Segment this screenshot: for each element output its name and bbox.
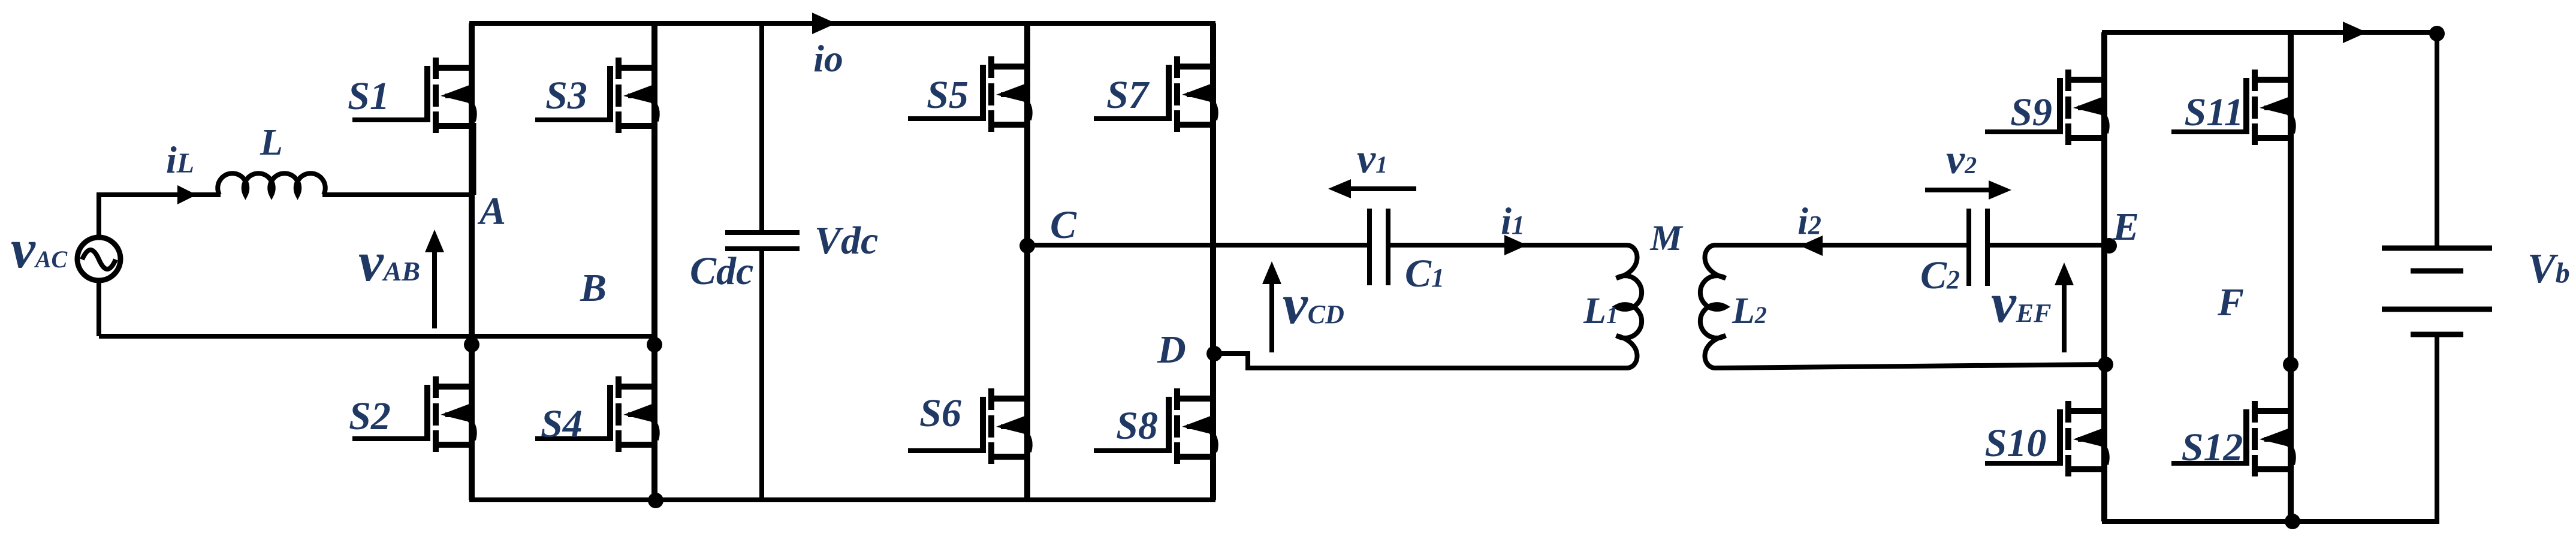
svg-text:v1: v1 [1357, 136, 1387, 182]
svg-text:S8: S8 [1116, 404, 1158, 448]
svg-text:Vb: Vb [2527, 246, 2570, 292]
svg-text:C1: C1 [1405, 252, 1444, 295]
svg-text:A: A [477, 189, 506, 233]
svg-text:S7: S7 [1106, 73, 1150, 117]
svg-text:S11: S11 [2184, 90, 2243, 134]
svg-text:vEF: vEF [1991, 272, 2051, 334]
svg-text:S12: S12 [2182, 426, 2243, 469]
svg-text:S1: S1 [348, 74, 390, 118]
svg-text:D: D [1157, 328, 1186, 372]
svg-text:v2: v2 [1946, 137, 1977, 183]
svg-text:Vdc: Vdc [815, 219, 878, 263]
svg-text:S2: S2 [349, 394, 391, 438]
svg-text:M: M [1649, 218, 1684, 258]
svg-text:S5: S5 [927, 73, 969, 117]
svg-text:S3: S3 [545, 74, 587, 117]
svg-text:S9: S9 [2010, 90, 2052, 134]
svg-text:L2: L2 [1732, 291, 1767, 331]
svg-text:vCD: vCD [1283, 273, 1344, 336]
svg-text:Cdc: Cdc [690, 249, 753, 293]
svg-text:vAB: vAB [358, 231, 420, 293]
svg-text:iL: iL [166, 138, 194, 181]
svg-text:i1: i1 [1501, 200, 1525, 242]
svg-text:B: B [580, 266, 607, 310]
svg-text:F: F [2217, 280, 2244, 324]
svg-text:S6: S6 [919, 391, 961, 435]
svg-text:L: L [260, 122, 283, 163]
svg-text:i2: i2 [1797, 200, 1821, 242]
svg-text:C: C [1050, 203, 1077, 247]
svg-text:io: io [813, 37, 843, 80]
svg-text:vAC: vAC [11, 218, 68, 279]
svg-text:L1: L1 [1583, 291, 1618, 331]
svg-text:S4: S4 [541, 402, 583, 446]
svg-text:C2: C2 [1920, 254, 1960, 297]
svg-text:E: E [2112, 205, 2139, 249]
svg-text:S10: S10 [1985, 421, 2047, 465]
